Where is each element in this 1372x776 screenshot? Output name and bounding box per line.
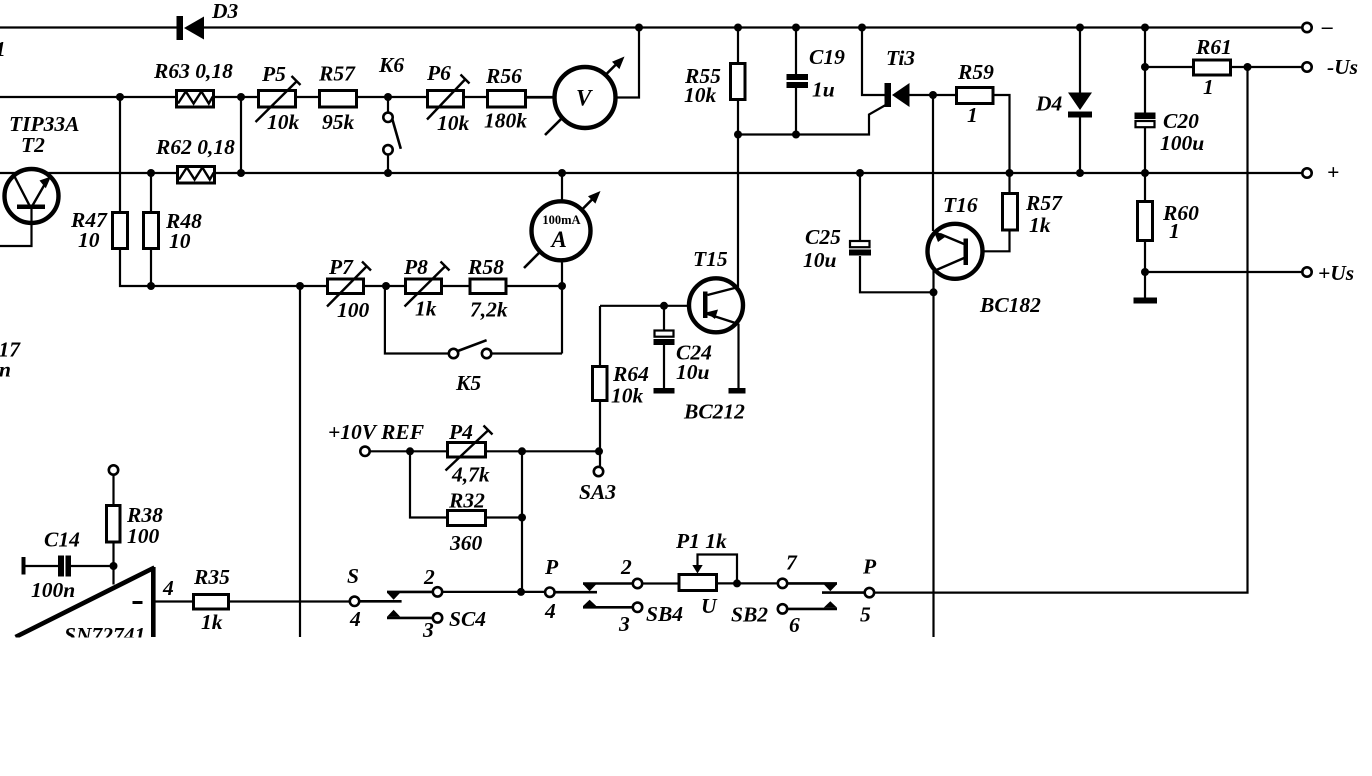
svg-text:100mA: 100mA [542,213,580,227]
svg-text:R59: R59 [957,60,994,84]
svg-text:100u: 100u [1160,131,1204,155]
svg-text:R61: R61 [1195,35,1232,59]
svg-text:SB4: SB4 [646,602,683,626]
svg-text:100n: 100n [31,578,75,602]
svg-text:D4: D4 [1035,92,1063,116]
svg-text:Ti3: Ti3 [886,46,915,70]
svg-text:10k: 10k [684,83,717,107]
svg-text:2: 2 [620,555,632,579]
svg-text:360: 360 [449,531,483,555]
svg-text:1: 1 [967,103,978,127]
svg-text:S: S [347,564,359,588]
svg-text:10k: 10k [611,384,644,408]
svg-text:6: 6 [789,613,800,637]
svg-text:SA3: SA3 [579,480,616,504]
svg-text:5: 5 [860,603,871,627]
svg-text:D3: D3 [211,0,239,23]
svg-text:P: P [544,555,559,579]
svg-text:100: 100 [127,524,160,548]
svg-text:U: U [701,594,718,618]
svg-text:2: 2 [423,565,435,589]
svg-text:1u: 1u [812,78,835,102]
svg-text:10u: 10u [676,360,710,384]
svg-text:7: 7 [786,551,798,575]
svg-text:P6: P6 [426,61,451,85]
svg-text:4,7k: 4,7k [451,463,490,487]
svg-text:P: P [862,555,877,579]
svg-text:K5: K5 [455,371,481,395]
svg-text:R62 0,18: R62 0,18 [155,135,235,159]
svg-text:+: + [1327,160,1339,184]
svg-text:R56: R56 [485,64,522,88]
svg-text:95k: 95k [322,110,355,134]
svg-text:4: 4 [162,576,174,600]
svg-text:V: V [576,86,593,111]
svg-text:SB2: SB2 [731,603,768,627]
svg-text:10k: 10k [437,111,470,135]
svg-text:n: n [0,358,11,382]
svg-text:P1 1k: P1 1k [675,529,727,553]
svg-text:T15: T15 [693,247,728,271]
svg-text:P5: P5 [261,62,286,86]
svg-text:R57: R57 [318,62,356,86]
svg-text:-Us: -Us [1327,55,1358,79]
svg-text:P4: P4 [448,420,473,444]
svg-text:T2: T2 [21,133,45,157]
svg-text:10u: 10u [803,248,837,272]
svg-text:10k: 10k [267,110,300,134]
svg-text:C20: C20 [1163,109,1199,133]
svg-text:1: 1 [1169,219,1180,243]
svg-text:1k: 1k [201,610,223,634]
svg-text:C14: C14 [44,528,80,552]
svg-text:T16: T16 [943,193,978,217]
svg-text:R32: R32 [448,489,485,513]
svg-text:10: 10 [78,228,100,252]
svg-text:1k: 1k [415,297,437,321]
svg-text:3: 3 [618,612,630,636]
svg-text:+10V REF: +10V REF [328,420,424,444]
svg-text:1: 1 [1203,75,1214,99]
svg-text:–: – [1321,14,1333,38]
svg-text:4: 4 [349,607,361,631]
svg-text:R58: R58 [467,255,504,279]
svg-text:10: 10 [169,229,191,253]
svg-text:4: 4 [544,599,556,623]
svg-text:R60: R60 [1162,201,1199,225]
svg-text:R57: R57 [1025,191,1063,215]
svg-text:BC212: BC212 [683,400,745,424]
svg-text:C19: C19 [809,45,845,69]
svg-text:R63 0,18: R63 0,18 [153,59,233,83]
svg-text:A: A [550,227,567,252]
svg-text:C25: C25 [805,225,841,249]
svg-text:P8: P8 [403,255,428,279]
svg-text:100: 100 [337,298,370,322]
svg-text:K6: K6 [378,53,404,77]
svg-text:P7: P7 [328,255,354,279]
svg-text:BC182: BC182 [979,293,1041,317]
svg-text:1: 1 [0,37,6,61]
svg-text:7,2k: 7,2k [470,298,508,322]
svg-text:+Us: +Us [1318,261,1354,285]
svg-text:SC4: SC4 [449,607,486,631]
svg-text:1k: 1k [1029,213,1051,237]
svg-text:R35: R35 [193,565,230,589]
svg-text:R64: R64 [612,362,649,386]
svg-text:180k: 180k [484,109,527,133]
